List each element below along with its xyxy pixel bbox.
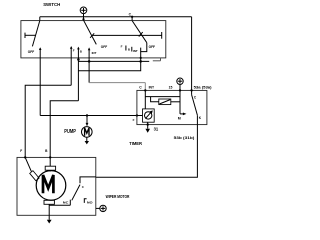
node C on timer edge xyxy=(144,89,146,91)
wiper motor box xyxy=(17,157,96,215)
svg-text:53a (53a): 53a (53a) xyxy=(194,85,213,89)
wire unit to ground xyxy=(147,122,149,129)
switch pole3 arm xyxy=(132,21,147,43)
wire pump/timer feed xyxy=(40,115,137,117)
node motor B terminal xyxy=(49,156,51,158)
svg-text:OFF: OFF xyxy=(28,50,34,54)
resistor R1 xyxy=(159,99,171,105)
battery + terminal 15 (circled plus) xyxy=(177,78,183,90)
relay arm xyxy=(192,95,198,116)
ground pump xyxy=(85,137,89,144)
svg-text:F: F xyxy=(121,45,123,49)
wire bottom brush to box edge xyxy=(48,204,50,215)
wire 15 drop with actuator arrow xyxy=(180,90,186,115)
timer box K1 xyxy=(137,90,207,124)
svg-text:F: F xyxy=(133,118,135,122)
node C (pole3 pivot) xyxy=(129,13,134,21)
svg-text:INT: INT xyxy=(92,51,97,55)
svg-text:B: B xyxy=(128,48,131,52)
node timer left terminal xyxy=(136,114,138,116)
contact B pole3 xyxy=(128,47,132,52)
wire 53b to wiper motor xyxy=(96,125,198,178)
wire resistor link xyxy=(151,97,159,102)
svg-text:F: F xyxy=(73,48,75,52)
wire hook at pole3 OFF tip xyxy=(141,43,147,52)
wire park NC to ground path xyxy=(49,204,70,206)
svg-text:NO: NO xyxy=(87,201,93,205)
motor armature M1 xyxy=(36,171,66,201)
wire timer left entry xyxy=(137,115,143,117)
contact X mark pole2 xyxy=(90,33,94,38)
svg-text:M: M xyxy=(178,117,181,121)
svg-text:B: B xyxy=(80,50,83,54)
wire inner top branch xyxy=(145,96,180,98)
svg-text:INT: INT xyxy=(149,86,155,90)
svg-text:OFF: OFF xyxy=(149,45,155,49)
contact INT xyxy=(88,47,97,61)
contact X mark pole3 xyxy=(139,32,143,36)
contact end bar of speed bus xyxy=(161,32,163,39)
wire top bus xyxy=(40,16,192,18)
switch box S1 xyxy=(21,21,166,58)
svg-text:TIMER: TIMER xyxy=(129,141,142,147)
node motor F terminal xyxy=(24,156,26,158)
ground wiper motor xyxy=(47,215,52,223)
svg-text:31: 31 xyxy=(154,127,159,132)
wire motor F branch xyxy=(25,85,71,157)
battery + terminal (top, circled plus) xyxy=(80,7,87,20)
svg-text:C: C xyxy=(194,95,197,99)
brush side (tilted) xyxy=(30,171,39,181)
node pump tap xyxy=(86,114,88,116)
wire speed bus xyxy=(92,34,162,36)
svg-text:OFF: OFF xyxy=(101,45,107,49)
switch pole2 arm xyxy=(84,20,97,44)
node W61-hook xyxy=(139,60,142,63)
svg-text:INT: INT xyxy=(133,49,138,53)
wire W61 tail connector xyxy=(153,58,161,61)
brush bottom xyxy=(44,200,54,204)
contact NO xyxy=(84,199,86,203)
node on box edge xyxy=(140,57,142,59)
wire W61 horizontal xyxy=(78,60,149,62)
wire C drop inside timer xyxy=(144,90,146,109)
svg-text:F: F xyxy=(20,149,22,153)
park switch common drop xyxy=(80,177,96,183)
timer unit box xyxy=(143,109,155,122)
ground 31 xyxy=(145,127,158,133)
node junction at + stem xyxy=(82,18,84,20)
wire drop to pole1 pivot xyxy=(39,17,41,21)
contact NC xyxy=(69,200,71,206)
svg-text:53b (31b): 53b (31b) xyxy=(174,135,196,140)
svg-text:B: B xyxy=(45,149,48,153)
svg-text:C: C xyxy=(82,185,85,189)
wire motor B branch xyxy=(50,101,78,158)
wire gray to timer C xyxy=(89,61,145,90)
wire F to side brush xyxy=(25,157,31,171)
wire drop from hook through box edge xyxy=(140,52,142,62)
switch pole1 arm xyxy=(32,21,39,47)
relay contact K tick xyxy=(196,115,198,124)
node W61-INT xyxy=(77,58,80,61)
battery + wiper (circled plus) xyxy=(96,205,106,211)
svg-text:PUMP: PUMP xyxy=(64,129,76,135)
svg-text:SWITCH: SWITCH xyxy=(43,2,60,7)
node 53a on timer edge xyxy=(190,89,192,91)
brush top xyxy=(45,166,55,170)
relay contact C tick xyxy=(191,90,193,94)
wire 53 drop (switch to pump/timer line) xyxy=(39,48,41,115)
node W61-gray xyxy=(88,60,91,63)
wire W70 horizontal xyxy=(78,61,140,70)
svg-text:C: C xyxy=(129,13,132,17)
wire B to top brush xyxy=(49,157,51,166)
contact F pole3 xyxy=(121,45,126,51)
svg-text:WIPER MOTOR: WIPER MOTOR xyxy=(106,194,130,200)
contact pole1 OFF xyxy=(25,33,36,38)
node on timer bottom edge xyxy=(147,123,149,125)
timer unit symbol (circle with arrow) xyxy=(145,110,153,119)
svg-text:NC: NC xyxy=(63,201,70,205)
park switch arm xyxy=(72,185,80,201)
pump motor (circled M) xyxy=(82,116,93,138)
svg-text:15: 15 xyxy=(169,86,173,90)
svg-text:C: C xyxy=(139,86,142,90)
node 15 on timer edge xyxy=(179,89,181,91)
wire right side drop to timer xyxy=(191,17,193,91)
contact B xyxy=(77,47,83,101)
contact F (pole2 positions) xyxy=(70,46,75,85)
wire brush to armature xyxy=(49,170,51,171)
svg-text:K: K xyxy=(199,116,202,120)
wire resistor to 15 line xyxy=(171,101,180,103)
